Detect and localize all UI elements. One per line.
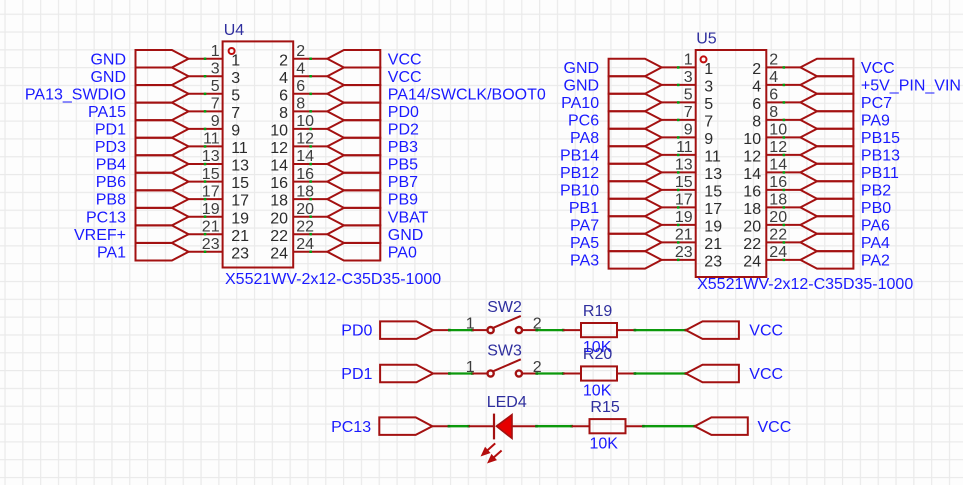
svg-text:PB7: PB7 [388,174,418,191]
svg-text:12: 12 [296,131,314,148]
svg-text:21: 21 [231,228,249,245]
svg-text:21: 21 [704,236,722,253]
svg-text:PB1: PB1 [569,200,599,217]
svg-text:PA4: PA4 [861,235,890,252]
svg-text:2: 2 [296,43,305,60]
svg-text:VREF+: VREF+ [74,227,126,244]
svg-text:6: 6 [769,87,778,104]
svg-text:8: 8 [769,104,778,121]
svg-text:PB13: PB13 [861,148,900,165]
svg-text:20: 20 [270,210,288,227]
svg-text:PB11: PB11 [861,165,899,182]
svg-text:9: 9 [684,122,693,139]
svg-text:24: 24 [296,236,314,253]
svg-text:X5521WV-2x12-C35D35-1000: X5521WV-2x12-C35D35-1000 [697,276,913,293]
svg-text:PB6: PB6 [96,174,126,191]
svg-text:2: 2 [752,61,761,78]
svg-text:23: 23 [675,244,693,261]
svg-text:13: 13 [675,157,693,174]
svg-text:VCC: VCC [749,366,783,383]
svg-text:PB15: PB15 [861,130,900,147]
svg-text:VCC: VCC [749,323,783,340]
svg-text:19: 19 [675,209,693,226]
svg-text:5: 5 [231,87,240,104]
svg-text:PB10: PB10 [560,183,599,200]
svg-text:U4: U4 [224,22,245,39]
svg-text:23: 23 [202,236,220,253]
svg-text:6: 6 [296,78,305,95]
svg-text:17: 17 [231,193,249,210]
svg-text:PA10: PA10 [561,95,599,112]
svg-text:2: 2 [279,52,288,69]
svg-text:6: 6 [279,87,288,104]
svg-text:18: 18 [769,192,787,209]
svg-text:10: 10 [270,123,288,140]
svg-text:PB14: PB14 [560,148,599,165]
svg-text:15: 15 [675,174,693,191]
svg-text:1: 1 [231,52,240,69]
svg-text:21: 21 [202,218,220,235]
svg-text:9: 9 [211,113,220,130]
svg-text:1: 1 [466,359,475,376]
svg-text:PB5: PB5 [388,157,418,174]
svg-text:13: 13 [202,148,220,165]
svg-text:VCC: VCC [388,69,422,86]
svg-text:SW2: SW2 [487,299,522,316]
svg-text:19: 19 [231,210,249,227]
svg-text:R19: R19 [583,303,612,320]
svg-text:PD1: PD1 [95,122,126,139]
svg-text:PA15: PA15 [88,104,126,121]
svg-text:PB8: PB8 [96,192,126,209]
svg-text:10: 10 [743,131,761,148]
svg-text:11: 11 [676,139,693,156]
svg-text:R20: R20 [583,346,612,363]
svg-text:PA2: PA2 [861,253,890,270]
svg-text:PD1: PD1 [341,366,372,383]
svg-text:4: 4 [279,70,288,87]
svg-text:6: 6 [752,96,761,113]
svg-text:15: 15 [231,175,249,192]
svg-text:PA13_SWDIO: PA13_SWDIO [25,86,126,103]
svg-text:PC7: PC7 [861,95,892,112]
svg-text:5: 5 [704,96,713,113]
svg-text:1: 1 [466,316,475,333]
svg-text:8: 8 [279,105,288,122]
svg-text:22: 22 [769,227,787,244]
svg-text:PD2: PD2 [388,122,419,139]
svg-text:3: 3 [231,70,240,87]
svg-text:5: 5 [211,78,220,95]
svg-text:PC13: PC13 [331,419,371,436]
svg-text:21: 21 [675,227,693,244]
svg-text:PA5: PA5 [570,235,599,252]
svg-text:14: 14 [270,158,288,175]
svg-text:VCC: VCC [861,60,895,77]
svg-text:17: 17 [704,201,722,218]
svg-text:PD0: PD0 [388,104,419,121]
svg-text:VCC: VCC [388,51,422,68]
svg-text:14: 14 [296,148,314,165]
svg-text:PD3: PD3 [95,139,126,156]
svg-text:18: 18 [743,201,761,218]
svg-text:PA0: PA0 [388,244,417,261]
svg-text:PA6: PA6 [861,218,890,235]
svg-text:3: 3 [704,79,713,96]
svg-text:PA14/SWCLK/BOOT0: PA14/SWCLK/BOOT0 [388,86,546,103]
svg-text:GND: GND [90,51,126,68]
svg-text:5: 5 [684,87,693,104]
svg-text:10K: 10K [590,436,619,453]
svg-text:17: 17 [202,183,220,200]
svg-text:PD0: PD0 [341,323,372,340]
svg-text:24: 24 [769,244,787,261]
svg-text:10: 10 [296,113,314,130]
svg-text:12: 12 [743,149,761,166]
svg-text:11: 11 [231,140,248,157]
svg-text:9: 9 [704,131,713,148]
svg-text:24: 24 [743,254,761,271]
svg-text:4: 4 [752,79,761,96]
svg-text:X5521WV-2x12-C35D35-1000: X5521WV-2x12-C35D35-1000 [225,271,441,288]
svg-text:PB2: PB2 [861,183,891,200]
svg-text:7: 7 [231,105,240,122]
svg-text:20: 20 [743,219,761,236]
svg-text:GND: GND [564,60,600,77]
svg-text:PC6: PC6 [568,113,599,130]
svg-text:15: 15 [202,166,220,183]
svg-text:8: 8 [296,96,305,113]
svg-text:3: 3 [211,61,220,78]
svg-text:20: 20 [769,209,787,226]
svg-text:+5V_PIN_VIN: +5V_PIN_VIN [861,78,961,95]
svg-text:16: 16 [769,174,787,191]
svg-text:7: 7 [684,104,693,121]
svg-text:16: 16 [743,184,761,201]
svg-text:PB4: PB4 [96,157,126,174]
svg-text:14: 14 [769,157,787,174]
svg-text:7: 7 [211,96,220,113]
svg-text:PA9: PA9 [861,113,890,130]
svg-text:4: 4 [769,69,778,86]
svg-text:VBAT: VBAT [388,209,429,226]
svg-text:8: 8 [752,114,761,131]
svg-text:GND: GND [90,69,126,86]
svg-text:18: 18 [296,183,314,200]
svg-text:14: 14 [743,166,761,183]
svg-text:SW3: SW3 [487,342,522,359]
svg-text:24: 24 [270,245,288,262]
svg-text:15: 15 [704,184,722,201]
svg-text:13: 13 [704,166,722,183]
svg-text:PB9: PB9 [388,192,418,209]
svg-text:16: 16 [270,175,288,192]
svg-text:2: 2 [769,52,778,69]
svg-text:PB12: PB12 [560,165,599,182]
svg-text:PC13: PC13 [86,209,126,226]
svg-text:PB3: PB3 [388,139,418,156]
svg-text:12: 12 [270,140,288,157]
svg-text:R15: R15 [590,399,619,416]
svg-text:VCC: VCC [758,419,792,436]
svg-text:3: 3 [684,69,693,86]
svg-text:10K: 10K [583,383,612,400]
svg-text:PB0: PB0 [861,200,891,217]
svg-text:23: 23 [704,254,722,271]
svg-text:22: 22 [270,228,288,245]
svg-text:9: 9 [231,123,240,140]
svg-text:12: 12 [769,139,787,156]
svg-text:22: 22 [296,218,314,235]
svg-text:11: 11 [203,131,220,148]
svg-text:7: 7 [704,114,713,131]
svg-text:17: 17 [675,192,693,209]
svg-text:1: 1 [211,43,220,60]
svg-text:11: 11 [704,149,721,166]
svg-text:22: 22 [743,236,761,253]
svg-text:19: 19 [704,219,722,236]
svg-text:23: 23 [231,245,249,262]
svg-text:U5: U5 [696,31,717,48]
svg-text:18: 18 [270,193,288,210]
svg-text:4: 4 [296,61,305,78]
svg-text:PA8: PA8 [570,130,599,147]
svg-text:1: 1 [704,61,713,78]
svg-text:20: 20 [296,201,314,218]
svg-text:19: 19 [202,201,220,218]
svg-text:13: 13 [231,158,249,175]
svg-text:PA7: PA7 [570,218,599,235]
svg-text:PA3: PA3 [570,253,599,270]
svg-text:LED4: LED4 [487,394,527,411]
svg-text:GND: GND [564,78,600,95]
svg-text:GND: GND [388,227,424,244]
svg-text:16: 16 [296,166,314,183]
svg-text:PA1: PA1 [97,244,126,261]
svg-text:10: 10 [769,122,787,139]
svg-text:1: 1 [684,52,693,69]
